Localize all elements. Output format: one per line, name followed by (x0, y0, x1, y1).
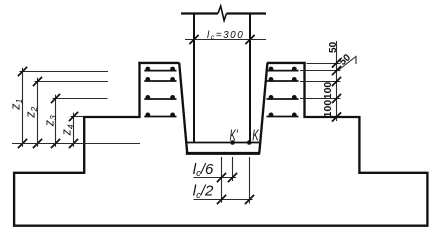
right chain extension bar1 (300, 70, 341, 72)
rebar L3 (144, 95, 176, 100)
rebar R4 (267, 113, 299, 118)
right chain extension bar3 (300, 98, 341, 100)
left dim chain z3 (51, 94, 108, 148)
right socket wall top (267, 62, 306, 64)
column break symbol (218, 6, 227, 21)
rebar R1 (267, 67, 299, 72)
svg-text:100: 100 (322, 100, 334, 118)
rebar L4 (144, 113, 176, 118)
extension line K (249, 157, 251, 204)
right chain extension bar2 (300, 81, 341, 83)
point K (247, 140, 252, 145)
foundation outer profile (14, 62, 427, 226)
svg-text:100: 100 (322, 82, 334, 100)
point K' (230, 140, 235, 145)
right chain extension wall top (307, 63, 341, 65)
socket cavity floor (186, 152, 260, 155)
svg-text:K: K (252, 128, 259, 145)
left chain base extension line (12, 143, 140, 145)
rebar R3 (267, 95, 299, 100)
svg-text:lc/2: lc/2 (193, 183, 214, 201)
column base joint line (187, 142, 260, 144)
column right edge (249, 14, 251, 143)
svg-text:50: 50 (328, 41, 339, 53)
rebar L2 (144, 77, 176, 82)
column top cut line (181, 12, 266, 14)
left dim chain z2 (33, 77, 108, 148)
left socket wall top (138, 62, 179, 64)
left dim chain z4 (69, 112, 84, 148)
extension line column centre (221, 157, 223, 203)
right dim chain line (336, 41, 338, 121)
svg-text:lc/6: lc/6 (193, 161, 214, 179)
left dim chain z1 (18, 67, 108, 148)
svg-text:K': K' (230, 128, 239, 145)
extension line K' (232, 157, 234, 181)
right chain ticks (332, 58, 341, 121)
socket cavity left face (179, 63, 187, 153)
dimension lc=300 (185, 35, 266, 44)
column left edge (193, 14, 195, 143)
dimension lc/2 (194, 195, 255, 204)
socket cavity right face (259, 63, 267, 153)
dimension lc/6 (194, 173, 238, 182)
rebar R2 (267, 77, 299, 82)
rebar L1 (144, 67, 176, 72)
label 50 leader (337, 57, 357, 72)
